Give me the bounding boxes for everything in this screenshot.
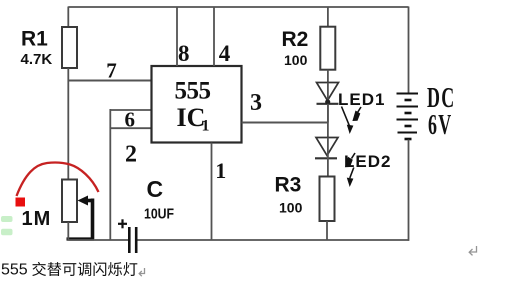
wire pot bottom stub <box>67 222 69 240</box>
LED D1 arrows <box>342 107 362 135</box>
capacitor polarity plus <box>118 219 127 228</box>
svg-text:100: 100 <box>284 52 308 68</box>
svg-text:R3: R3 <box>275 174 302 197</box>
pin label 8 <box>178 41 190 66</box>
svg-text:R2: R2 <box>282 28 309 51</box>
svg-text:LED1: LED1 <box>338 90 385 109</box>
caption chinese text 交替可调闪烁灯 <box>32 262 137 276</box>
label R2 100 <box>284 52 308 68</box>
label 4.7K <box>21 51 53 68</box>
potentiometer wiper arrow <box>67 196 95 240</box>
svg-text:1: 1 <box>215 158 226 183</box>
svg-text:3: 3 <box>250 90 262 116</box>
svg-text:100: 100 <box>279 200 303 216</box>
svg-text:4.7K: 4.7K <box>21 51 53 68</box>
label R1 <box>21 28 48 51</box>
pin label 1 <box>215 158 226 183</box>
svg-text:8: 8 <box>178 41 190 66</box>
wire R1 top stub <box>67 7 69 28</box>
potentiometer RP 1M body <box>62 180 77 223</box>
svg-text:R1: R1 <box>21 28 48 51</box>
wire R3 bottom stub <box>326 221 328 240</box>
svg-text:1M: 1M <box>22 208 52 230</box>
red adjustment arc <box>17 163 99 197</box>
label R3 100 <box>279 200 303 216</box>
wire bottom rail left of capacitor <box>68 239 128 241</box>
wire mid-left vertical (pins 2/6 to bottom rail) <box>109 109 111 240</box>
label 6V <box>428 110 452 141</box>
pin label 3 <box>250 90 262 116</box>
resistor R1 <box>62 27 77 68</box>
resistor R2 <box>320 27 335 70</box>
wire pin 3 <box>242 122 328 124</box>
label DC <box>427 83 455 114</box>
svg-text:C: C <box>147 176 164 202</box>
green marker dash <box>1 216 13 222</box>
wire pin 7 <box>68 80 151 82</box>
IC U1 555 box <box>152 66 242 143</box>
pin label 4 <box>219 41 231 66</box>
LED D2 arrows <box>345 153 355 187</box>
LED D2 <box>315 138 338 177</box>
label LED2 <box>344 152 391 171</box>
return mark after caption <box>139 268 144 276</box>
svg-text:6V: 6V <box>428 110 452 141</box>
caption 555 prefix <box>1 262 28 279</box>
label 10UF <box>144 205 174 221</box>
label LED1 <box>338 90 385 109</box>
green marker dash <box>1 229 13 236</box>
wire pin 1 <box>211 143 213 241</box>
wire pin 2 stub <box>110 127 152 129</box>
wire R2 top stub <box>327 7 329 28</box>
wire battery bottom stub <box>408 140 410 241</box>
red square marker <box>16 198 26 207</box>
svg-text:LED2: LED2 <box>344 152 391 171</box>
wire pin 4 stub <box>213 7 215 67</box>
wire top rail <box>68 6 408 8</box>
capacitor C plates <box>129 227 136 253</box>
label C <box>147 176 164 202</box>
wire pin 6 stub <box>110 109 152 111</box>
svg-text:7: 7 <box>106 59 117 83</box>
resistor R3 <box>320 177 335 222</box>
wire battery top stub <box>408 7 410 94</box>
return mark bottom right <box>469 246 476 255</box>
LED D1 <box>317 83 339 123</box>
wire pin 8 stub <box>176 7 178 67</box>
wire R1 to potentiometer <box>67 68 69 180</box>
label 1M <box>22 208 52 230</box>
label IC1 <box>177 103 210 135</box>
pin label 7 <box>106 59 117 83</box>
svg-text:2: 2 <box>125 142 137 168</box>
wire LED1 to LED2 <box>327 104 329 138</box>
label R3 <box>275 174 302 197</box>
label R2 <box>282 28 309 51</box>
pin label 2 <box>125 142 137 168</box>
svg-text:10UF: 10UF <box>144 205 174 221</box>
svg-text:4: 4 <box>219 41 231 66</box>
pin label 6 <box>125 108 136 132</box>
label 555 <box>175 78 211 105</box>
wire bottom rail right of capacitor <box>138 239 409 241</box>
svg-text:1: 1 <box>202 118 210 135</box>
battery BT1 <box>397 94 419 140</box>
svg-text:555: 555 <box>175 78 211 105</box>
wire R2 to LED1 <box>327 70 329 83</box>
svg-text:555: 555 <box>1 262 28 279</box>
